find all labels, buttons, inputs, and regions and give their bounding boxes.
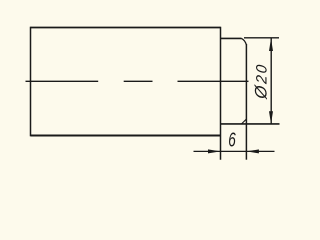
wire: small cylinder top edge — [221, 37, 242, 39]
wire: top extension line of dia20 — [244, 37, 279, 39]
arrowhead: dim 6 right (pointing left) — [247, 149, 259, 153]
svg-text:Ø20: Ø20 — [251, 62, 270, 101]
part outline: main cylinder body (rectangle) — [26, 27, 280, 160]
wire: small cylinder bottom-right chamfer — [241, 119, 246, 124]
dimension text dia20 (rotated) — [251, 62, 270, 101]
centerline (axis), long-short-long dashes — [26, 80, 99, 82]
wire: main body top edge — [31, 27, 221, 29]
arrowhead: dia20 bottom (pointing down) — [269, 111, 273, 124]
paper background — [0, 0, 300, 180]
arrowhead: dim 6 left (pointing right) — [208, 149, 220, 153]
wire: small cylinder bottom edge + extension line of dia20 — [221, 123, 280, 125]
dimension text 6 — [228, 128, 236, 152]
wire: main body right edge + extension line down to dimension 6 — [220, 27, 222, 160]
dimension line 6 (horizontal with outside tails) — [194, 150, 275, 152]
dimension line dia20 (vertical) — [270, 38, 272, 124]
svg-text:6: 6 — [228, 128, 236, 152]
wire: main body bottom edge — [31, 135, 221, 137]
wire: main body left edge — [30, 27, 32, 137]
wire: small cylinder right edge + extension line down to dimension 6 — [245, 44, 247, 160]
wire: small cylinder top-right fillet arc — [242, 38, 247, 44]
arrowhead: dia20 top (pointing up) — [269, 38, 273, 51]
